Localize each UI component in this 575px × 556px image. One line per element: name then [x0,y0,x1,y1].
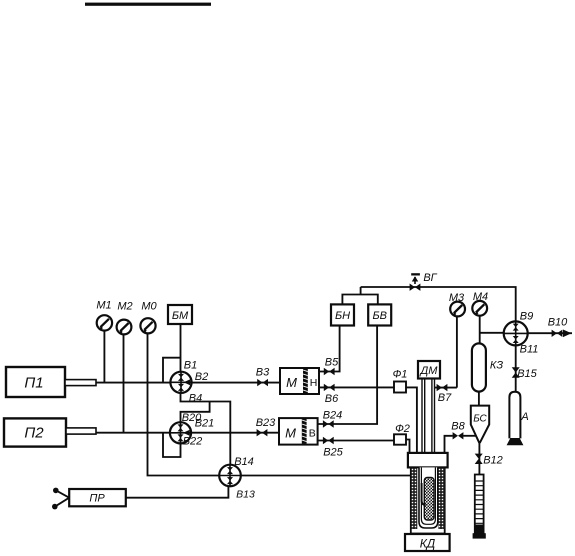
svg-text:В12: В12 [483,455,503,467]
wire B9 to B10 [528,332,573,334]
burette [473,475,486,539]
valve B15 [512,367,520,377]
svg-text:В5: В5 [325,357,339,369]
valve cluster B20 B21 B22 [170,422,191,443]
wire M4 to B9 [480,332,504,334]
wire branch П2 to B22 bottom [163,433,181,457]
wire П2 main line [96,432,279,434]
svg-text:В22: В22 [183,436,203,448]
valve cluster B14 B13 [219,465,241,487]
wire B6 to Ф1 [319,386,394,388]
svg-text:В4: В4 [189,392,202,404]
wire B14 to reactor [240,475,411,477]
svg-text:В14: В14 [234,456,254,468]
svg-text:В24: В24 [323,409,343,421]
svg-text:В6: В6 [325,393,339,405]
svg-text:В9: В9 [520,311,533,323]
wire B4 path to B14 [181,392,231,466]
box КД [405,534,450,551]
svg-text:П2: П2 [24,425,44,442]
wire БН БВ harness [342,287,377,304]
gauge M0 [140,318,155,333]
svg-text:ДМ: ДМ [419,365,439,377]
valve ВГ with vent stem [410,273,421,291]
svg-text:В13: В13 [236,488,255,500]
svg-text:В3: В3 [256,366,270,378]
wire Ф1 to reactor header [406,387,417,453]
svg-text:В8: В8 [451,420,465,432]
wire M4 stem to КЗ [479,316,481,344]
svg-text:БМ: БМ [172,310,189,322]
wire БМ stem to B1 [180,324,182,373]
svg-text:БС: БС [473,414,487,425]
wire Ф2 to reactor header [406,440,410,453]
svg-text:ВГ: ВГ [423,272,437,284]
wire ДМ leg 1 [422,379,425,453]
box БН [331,304,354,325]
wire B24 to БВ [318,326,378,425]
vessel БС funnel [471,406,489,443]
wire ПР to B13 [126,487,229,498]
valve B6 [324,384,335,391]
pump П2 box [4,418,96,446]
gauge M1 [97,315,112,330]
svg-text:А: А [520,411,528,423]
filter Ф1 [394,382,406,393]
reactor thermo tube [422,483,426,505]
svg-text:В15: В15 [517,368,537,380]
svg-text:В1: В1 [184,360,197,372]
svg-text:КЗ: КЗ [490,360,503,372]
valve B25 [323,437,334,444]
separator M box 1 with H [280,368,319,394]
svg-text:В25: В25 [323,446,343,458]
svg-text:М0: М0 [141,301,157,313]
valve cluster B1 B2 B4 [170,372,191,393]
svg-text:Ф1: Ф1 [393,368,408,380]
svg-text:БВ: БВ [372,310,387,322]
wire B8 to reactor header [445,436,453,453]
box ДМ [418,361,440,379]
valve B12 [475,454,483,464]
wire M0 stem to B14 [148,334,222,476]
reactor body with walls [411,467,445,533]
valve B10 with arrow [552,330,572,338]
svg-text:В2: В2 [195,371,208,383]
valve B8 [453,432,464,439]
reactor inner tube [419,467,438,528]
wire M1 stem [103,331,105,383]
svg-text:В7: В7 [438,392,452,404]
reactor header flange [408,453,448,468]
svg-text:БН: БН [335,310,350,322]
title underline [85,3,211,6]
svg-text:М1: М1 [96,300,111,312]
wire B5 stub [319,326,340,372]
wire M2 stem [123,335,125,433]
svg-text:М3: М3 [449,292,465,304]
valve B3 [257,379,268,386]
svg-text:Ф2: Ф2 [395,423,410,435]
wire КЗ to БС [478,392,480,406]
column КЗ [472,343,486,391]
svg-text:П1: П1 [24,375,43,392]
box БВ [368,304,391,325]
gauge M4 [472,301,487,316]
svg-text:М: М [286,375,297,390]
gauge M3 [450,302,465,317]
valve B24 [323,420,334,427]
reactor catalyst column [424,478,434,521]
svg-text:В11: В11 [520,343,539,355]
wire B7 line [435,387,457,389]
tube A [507,392,524,445]
pump П1 box [6,367,96,397]
separator M box 2 with B [279,418,318,445]
unit ПР box with fork [52,488,126,510]
reactor inner tube second wall [421,467,435,524]
filter Ф2 [394,434,406,444]
valve cluster B9 B11 [504,321,528,345]
gauge M2 [117,320,132,335]
svg-text:В10: В10 [548,316,568,328]
wire B25 to Ф2 [318,440,394,442]
wire ДМ leg 2 [432,379,435,453]
svg-text:Н: Н [310,377,318,389]
svg-text:В21: В21 [195,417,215,429]
svg-text:В23: В23 [256,417,276,429]
box БМ [168,305,192,324]
svg-text:М2: М2 [117,301,132,313]
svg-text:М4: М4 [473,291,488,303]
wire БС to burette [478,442,480,474]
svg-text:КД: КД [420,537,436,551]
valve B7 [437,384,448,391]
valve B23 [257,429,268,436]
wire B4 jog to B20 top [181,402,210,424]
valve B5 [324,368,335,375]
wire ВГ line to B9 [361,287,516,322]
svg-text:ПР: ПР [89,493,105,505]
svg-text:В: В [309,428,316,440]
wire П1 main line [96,382,280,384]
wire B9 bottom to A [515,345,517,392]
wire B8 right stub [463,435,476,437]
wire branch П1 to B1 top [163,358,181,383]
svg-text:М: М [285,425,296,440]
wire M3 stem [456,316,458,387]
